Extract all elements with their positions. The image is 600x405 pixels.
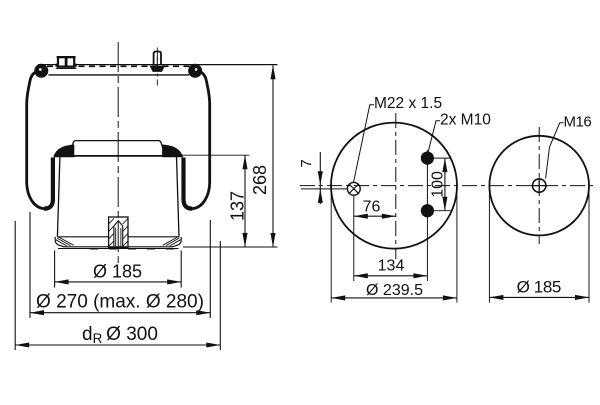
- bellows outer wall right: [192, 70, 209, 209]
- piston flange top line: [57, 236, 108, 238]
- dim 268 line: [272, 65, 274, 247]
- centerline main: [117, 42, 119, 263]
- top plate bottom line: [49, 74, 190, 76]
- dim 100: [432, 157, 451, 159]
- dim 137 line: [244, 155, 246, 247]
- top plate crimp dashes: [47, 65, 190, 67]
- svg-text:2x M10: 2x M10: [440, 111, 491, 128]
- svg-text:M22 x 1.5: M22 x 1.5: [374, 95, 442, 112]
- piston cup walls: [57, 157, 60, 237]
- dim 239.5 ext lines: [330, 182, 332, 303]
- svg-text:7: 7: [298, 159, 315, 167]
- piston center boss: [109, 217, 128, 248]
- dim 137 ext line: [180, 154, 250, 156]
- bellows rim roll left: [53, 145, 74, 159]
- piston bumper top: [69, 141, 166, 156]
- leader M10: [428, 121, 440, 152]
- svg-text:Ø 270 (max. Ø 280): Ø 270 (max. Ø 280): [36, 291, 204, 312]
- studs M10: [426, 150, 428, 218]
- top plate top line: [38, 64, 278, 66]
- svg-text:M16: M16: [564, 113, 592, 130]
- bead right: [188, 64, 202, 78]
- dim 300 ext lines: [14, 221, 16, 350]
- M16 hole: [533, 179, 546, 192]
- dim 268 bottom ext line: [183, 246, 278, 248]
- air fitting body: [56, 57, 77, 69]
- bellows outer wall left: [27, 70, 44, 209]
- vertical centerline right: [538, 127, 540, 244]
- svg-text:134: 134: [378, 258, 405, 275]
- svg-text:Ø 185: Ø 185: [93, 261, 142, 281]
- dim 300 line: [15, 344, 220, 346]
- leader M16: [546, 123, 564, 179]
- svg-text:268: 268: [250, 165, 270, 195]
- dim 270 ext lines: [29, 212, 31, 318]
- stud bolt: [150, 52, 164, 72]
- bellows rim roll right: [162, 145, 183, 159]
- boss hatching: [109, 218, 128, 246]
- fitting M22 symbol: [347, 182, 360, 195]
- dim 239.5 line: [331, 297, 457, 299]
- piston flange bottom line: [58, 248, 178, 250]
- dim 185R line: [489, 296, 589, 298]
- piston circle: [489, 136, 589, 236]
- svg-text:Ø 239.5: Ø 239.5: [366, 282, 423, 299]
- svg-text:100: 100: [429, 171, 446, 198]
- main circle: [331, 123, 457, 249]
- dim 270 line: [30, 312, 210, 314]
- piston rim line: [59, 155, 178, 157]
- dim 185 left ext lines: [54, 251, 56, 288]
- dim 7: [319, 152, 321, 204]
- svg-text:76: 76: [363, 199, 381, 216]
- dim 185 line: [55, 281, 182, 283]
- leader M22: [354, 105, 375, 183]
- svg-text:137: 137: [228, 191, 248, 221]
- stud centerline: [156, 48, 158, 86]
- horizontal centerline shared: [300, 185, 597, 187]
- dim 185R ext lines: [488, 188, 490, 303]
- bead left: [34, 64, 48, 78]
- dim 134: [426, 218, 428, 281]
- svg-text:Ø 185: Ø 185: [517, 278, 561, 297]
- fitting offset line: [301, 188, 348, 190]
- bellows lobe right: [184, 158, 193, 209]
- vertical centerline middle: [395, 113, 397, 259]
- dim 76: [353, 196, 355, 281]
- bead pinholes redraw: [39, 68, 42, 71]
- piston flange outline: [55, 237, 181, 247]
- bellows lobe left: [44, 158, 53, 209]
